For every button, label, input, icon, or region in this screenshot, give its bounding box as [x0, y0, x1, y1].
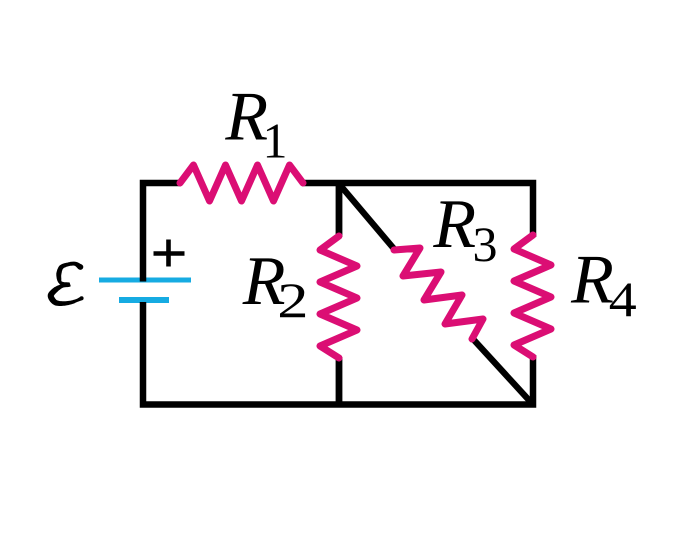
wire middle branch lower (R2 to bottom)	[336, 357, 343, 405]
svg-text:R: R	[432, 186, 476, 263]
svg-text:1: 1	[263, 112, 288, 168]
wire middle branch upper (node to R2)	[336, 183, 343, 237]
battery negative plate (short)	[119, 297, 169, 303]
svg-text:R: R	[570, 242, 614, 319]
wire diagonal from top node to R3	[340, 185, 395, 250]
resistor R4	[514, 235, 551, 357]
wire left branch lower, bottom wire, right branch lower	[143, 302, 533, 405]
battery polarity plus sign	[154, 240, 185, 267]
svg-text:2: 2	[277, 274, 308, 329]
wire top segment from R1 to top-right corner and right branch upper	[302, 183, 533, 237]
label EMF script E	[48, 262, 84, 306]
resistor R2	[320, 236, 357, 358]
resistor R1	[180, 165, 303, 201]
resistor R3	[394, 248, 483, 339]
wire top-left segment and left branch upper wire	[143, 183, 181, 282]
svg-text:3: 3	[473, 216, 498, 272]
svg-text:4: 4	[609, 273, 637, 328]
battery positive plate (long)	[99, 278, 191, 283]
wire diagonal from R3 to bottom-right corner	[473, 339, 533, 404]
